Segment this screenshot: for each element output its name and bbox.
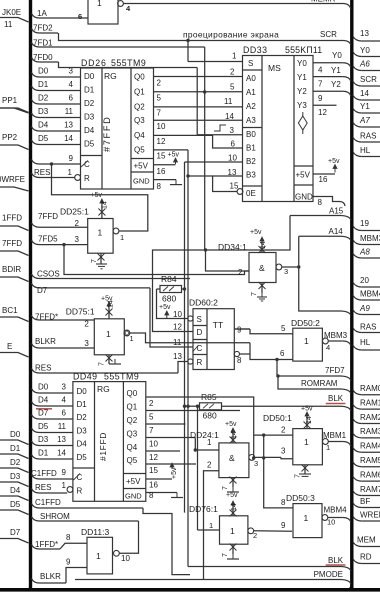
svg-text:RAM6: RAM6 [360, 470, 380, 479]
svg-text:D0: D0 [77, 387, 88, 396]
svg-text:7FFD: 7FFD [2, 239, 22, 248]
svg-text:GND: GND [295, 193, 313, 202]
svg-text:DD26: DD26 [81, 58, 107, 68]
svg-text:A15: A15 [329, 207, 344, 216]
svg-text:16: 16 [157, 167, 166, 176]
svg-text:6: 6 [231, 140, 236, 149]
svg-text:3: 3 [84, 339, 89, 348]
svg-text:R: R [197, 358, 203, 367]
svg-text:WREM: WREM [360, 511, 380, 520]
svg-text:RAM1: RAM1 [360, 398, 380, 407]
svg-text:10: 10 [149, 440, 158, 449]
svg-text:+5v: +5v [91, 192, 103, 199]
svg-text:D3: D3 [38, 107, 49, 116]
svg-text:14: 14 [360, 89, 369, 98]
svg-text:6: 6 [62, 409, 67, 418]
svg-text:11: 11 [4, 20, 13, 29]
svg-text:RES: RES [35, 483, 51, 492]
svg-text:Y1: Y1 [360, 102, 370, 111]
svg-text:10: 10 [157, 122, 166, 131]
svg-text:RES: RES [34, 168, 50, 177]
svg-text:2: 2 [84, 320, 89, 329]
svg-text:1: 1 [232, 52, 237, 61]
svg-text:&: & [229, 453, 235, 463]
svg-text:3: 3 [75, 235, 80, 244]
svg-text:RAM4: RAM4 [360, 442, 380, 451]
svg-text:Q5: Q5 [127, 456, 138, 465]
svg-text:BLKR: BLKR [40, 572, 61, 581]
svg-text:12: 12 [149, 453, 158, 462]
svg-text:RES: RES [35, 364, 51, 373]
svg-text:RAM5: RAM5 [360, 456, 380, 465]
svg-text:A6: A6 [359, 60, 370, 69]
svg-text:D1: D1 [84, 86, 95, 95]
svg-text:Q3: Q3 [127, 430, 138, 439]
svg-text:E: E [7, 342, 12, 351]
svg-text:A3: A3 [246, 116, 256, 125]
svg-text:4: 4 [318, 66, 323, 75]
svg-text:7: 7 [91, 259, 98, 263]
svg-text:D5: D5 [10, 500, 21, 509]
svg-text:10: 10 [173, 310, 182, 319]
svg-text:1FFD: 1FFD [2, 214, 22, 223]
svg-text:555KП11: 555KП11 [285, 45, 322, 55]
svg-text:7FD2: 7FD2 [33, 24, 53, 33]
svg-text:D3: D3 [10, 472, 21, 481]
svg-text:MBM1: MBM1 [323, 431, 347, 440]
svg-text:DD49: DD49 [73, 372, 98, 382]
svg-text:D0: D0 [84, 72, 95, 81]
svg-text:1: 1 [304, 437, 309, 447]
svg-text:Q0: Q0 [134, 72, 145, 81]
svg-text:6: 6 [78, 12, 82, 21]
svg-text:1: 1 [207, 438, 212, 447]
svg-text:1: 1 [230, 526, 235, 536]
svg-text:3: 3 [284, 267, 288, 276]
svg-text:2: 2 [207, 461, 212, 470]
svg-text:7: 7 [222, 553, 229, 557]
svg-text:D5: D5 [77, 453, 88, 462]
svg-text:9: 9 [69, 154, 74, 163]
svg-text:#7FFD: #7FFD [102, 116, 112, 152]
svg-text:+5v: +5v [225, 421, 237, 428]
svg-text:5: 5 [281, 324, 286, 333]
svg-text:12: 12 [173, 323, 182, 332]
svg-text:GND: GND [125, 492, 142, 501]
svg-text:C1FFD: C1FFD [31, 469, 57, 478]
svg-text:13: 13 [173, 352, 182, 361]
svg-text:DD25:1: DD25:1 [60, 207, 89, 217]
svg-text:5: 5 [230, 83, 235, 92]
svg-text:3: 3 [254, 459, 258, 468]
svg-text:8: 8 [149, 491, 154, 500]
svg-text:B1: B1 [246, 144, 256, 153]
svg-text:ROMRAM: ROMRAM [301, 379, 338, 388]
svg-text:+5v: +5v [301, 406, 313, 413]
svg-text:D: D [197, 328, 203, 337]
svg-text:MBM3: MBM3 [324, 331, 348, 340]
svg-text:14: 14 [306, 416, 313, 424]
svg-text:Y1: Y1 [297, 73, 307, 82]
svg-text:6: 6 [69, 94, 74, 103]
svg-text:A14: A14 [329, 227, 344, 236]
svg-text:7: 7 [295, 474, 302, 478]
svg-text:A9: A9 [359, 304, 370, 313]
svg-text:D5: D5 [84, 140, 95, 149]
svg-text:+5v: +5v [250, 229, 262, 236]
svg-text:DD24:1: DD24:1 [190, 430, 219, 440]
svg-text:D4: D4 [77, 440, 88, 449]
svg-text:RG: RG [104, 71, 117, 81]
svg-text:PMODE: PMODE [314, 570, 343, 579]
svg-text:9: 9 [318, 94, 323, 103]
svg-text:14: 14 [225, 112, 234, 121]
svg-text:D7: D7 [10, 528, 21, 537]
svg-text:2: 2 [238, 268, 243, 277]
svg-text:+5V: +5V [134, 162, 149, 171]
svg-text:D4: D4 [38, 121, 49, 130]
svg-text:D4: D4 [84, 126, 95, 135]
svg-text:Y3: Y3 [297, 101, 307, 110]
svg-text:D2: D2 [77, 413, 88, 422]
svg-text:MBM4: MBM4 [324, 506, 348, 515]
svg-text:TT: TT [213, 320, 223, 330]
svg-text:13: 13 [64, 121, 73, 130]
svg-text:SCR: SCR [360, 75, 377, 84]
svg-text:1: 1 [106, 329, 111, 339]
svg-text:D4: D4 [10, 486, 21, 495]
svg-text:CSOS: CSOS [37, 270, 60, 279]
svg-text:D4: D4 [38, 396, 49, 405]
svg-text:MBM4: MBM4 [360, 290, 380, 299]
svg-text:1: 1 [68, 168, 73, 177]
svg-text:+5V: +5V [296, 171, 311, 180]
svg-text:7FD5: 7FD5 [38, 235, 58, 244]
svg-text:R84: R84 [161, 274, 177, 284]
svg-text:D2: D2 [38, 94, 49, 103]
svg-text:проецирование экрана: проецирование экрана [183, 30, 279, 40]
svg-text:1: 1 [209, 521, 213, 530]
svg-text:1A: 1A [37, 9, 47, 18]
svg-text:Q1: Q1 [127, 403, 138, 412]
svg-text:19: 19 [360, 219, 369, 228]
svg-text:B3: B3 [246, 171, 256, 180]
svg-text:D2: D2 [84, 99, 95, 108]
svg-text:D0: D0 [10, 430, 21, 439]
svg-text:Q1: Q1 [134, 88, 145, 97]
svg-text:11: 11 [65, 107, 74, 116]
svg-text:8: 8 [157, 182, 162, 191]
svg-text:16: 16 [319, 175, 328, 184]
svg-text:680: 680 [203, 411, 217, 421]
svg-text:8: 8 [66, 533, 71, 542]
svg-text:+5V: +5V [126, 477, 141, 486]
svg-text:HL: HL [360, 146, 371, 155]
svg-text:+5v: +5v [159, 304, 171, 311]
svg-text:DD33: DD33 [243, 45, 268, 55]
svg-text:Q4: Q4 [127, 443, 138, 452]
svg-text:8: 8 [237, 356, 242, 365]
svg-text:PP1: PP1 [2, 96, 18, 105]
svg-text:RAS: RAS [360, 132, 376, 141]
svg-text:3: 3 [230, 126, 235, 135]
svg-text:1FFD*: 1FFD* [35, 540, 58, 549]
svg-text:DD50:3: DD50:3 [286, 493, 315, 503]
svg-text:SCR: SCR [320, 30, 337, 39]
svg-text:RAM2: RAM2 [360, 413, 380, 422]
svg-text:PP2: PP2 [2, 133, 18, 142]
svg-text:1: 1 [304, 513, 309, 523]
svg-text:B0: B0 [246, 130, 256, 139]
svg-text:+5v: +5v [328, 158, 340, 165]
svg-text:D3: D3 [38, 435, 49, 444]
svg-text:+5v: +5v [226, 492, 238, 499]
svg-text:DD60:2: DD60:2 [189, 298, 218, 308]
svg-text:D0: D0 [38, 67, 49, 76]
svg-text:A8: A8 [359, 248, 370, 257]
svg-text:MBM3: MBM3 [360, 234, 380, 243]
svg-text:3: 3 [281, 447, 286, 456]
svg-text:A2: A2 [246, 102, 256, 111]
svg-text:1: 1 [120, 233, 124, 242]
svg-text:7: 7 [251, 292, 258, 296]
svg-text:DD50:1: DD50:1 [263, 413, 292, 423]
svg-text:RAM3: RAM3 [360, 427, 380, 436]
svg-text:MEM: MEM [357, 536, 376, 545]
svg-text:Q0: Q0 [127, 389, 138, 398]
svg-text:2: 2 [281, 426, 286, 435]
svg-text:1: 1 [130, 334, 134, 343]
svg-text:D1: D1 [38, 80, 49, 89]
svg-text:Q5: Q5 [134, 146, 145, 155]
svg-text:7FD0: 7FD0 [33, 53, 53, 62]
svg-text:1: 1 [97, 0, 102, 8]
svg-text:S: S [248, 59, 253, 68]
svg-text:Q2: Q2 [127, 416, 138, 425]
svg-text:4: 4 [62, 396, 67, 405]
svg-text:JK0E: JK0E [2, 8, 21, 17]
svg-text:S: S [197, 315, 202, 324]
svg-text:12: 12 [157, 137, 166, 146]
svg-text:RAM7: RAM7 [360, 485, 380, 494]
svg-text:7: 7 [157, 109, 162, 118]
svg-text:10: 10 [327, 518, 335, 527]
svg-text:11: 11 [224, 97, 233, 106]
svg-text:7FFD: 7FFD [38, 212, 58, 221]
svg-text:7: 7 [318, 80, 323, 89]
svg-text:1: 1 [304, 336, 309, 346]
svg-text:DD34:1: DD34:1 [218, 242, 247, 252]
svg-text:11: 11 [58, 422, 67, 431]
svg-text:13: 13 [360, 29, 369, 38]
svg-text:7: 7 [222, 486, 229, 490]
svg-text:14: 14 [260, 241, 267, 249]
svg-text:BDIR: BDIR [2, 265, 21, 274]
svg-text:20: 20 [360, 276, 369, 285]
svg-text:RD: RD [360, 553, 372, 562]
svg-text:#1FFD: #1FFD [98, 432, 108, 461]
svg-text:SHROM: SHROM [40, 512, 70, 521]
svg-text:15: 15 [157, 152, 166, 161]
svg-text:555TM9: 555TM9 [111, 58, 146, 68]
svg-text:Y1: Y1 [331, 66, 341, 75]
svg-text:680: 680 [162, 294, 176, 304]
svg-text:8: 8 [281, 498, 286, 507]
svg-text:4: 4 [326, 343, 330, 352]
svg-text:Q3: Q3 [134, 116, 145, 125]
svg-text:9: 9 [237, 326, 242, 335]
svg-text:15: 15 [149, 466, 158, 475]
svg-text:A1: A1 [246, 88, 256, 97]
svg-text:2: 2 [157, 78, 162, 87]
svg-text:BLKR: BLKR [35, 337, 56, 346]
svg-text:5: 5 [149, 413, 154, 422]
svg-text:D5: D5 [38, 422, 49, 431]
svg-text:BF: BF [360, 497, 370, 506]
svg-text:14: 14 [64, 134, 73, 143]
svg-text:14: 14 [231, 503, 238, 511]
svg-text:1: 1 [326, 443, 330, 452]
svg-text:1: 1 [96, 551, 101, 561]
svg-text:10: 10 [121, 554, 130, 563]
svg-text:Y0: Y0 [297, 59, 307, 68]
svg-text:C1FFD: C1FFD [35, 498, 61, 507]
svg-text:C: C [197, 344, 203, 353]
svg-text:DD11:3: DD11:3 [81, 527, 109, 537]
svg-text:7: 7 [99, 362, 106, 366]
svg-text:9: 9 [62, 468, 67, 477]
svg-text:5: 5 [157, 94, 162, 103]
svg-text:DD76:1: DD76:1 [189, 504, 218, 514]
svg-text:D3: D3 [77, 427, 88, 436]
svg-text:R: R [77, 487, 83, 496]
svg-text:Y2: Y2 [297, 87, 307, 96]
svg-text:MS: MS [268, 63, 281, 73]
svg-text:2: 2 [149, 399, 154, 408]
svg-text:2: 2 [230, 68, 235, 77]
svg-text:Y0: Y0 [332, 51, 342, 60]
svg-text:BLK: BLK [328, 556, 344, 565]
svg-text:DD50:2: DD50:2 [291, 318, 320, 328]
svg-text:7: 7 [149, 426, 154, 435]
svg-text:Y2: Y2 [331, 80, 341, 89]
svg-text:A0: A0 [246, 74, 256, 83]
svg-text:Q2: Q2 [134, 103, 145, 112]
svg-text:D7: D7 [38, 409, 49, 418]
svg-text:9: 9 [66, 558, 71, 567]
svg-text:14: 14 [57, 449, 66, 458]
svg-text:12: 12 [318, 108, 327, 117]
svg-text:9: 9 [281, 521, 286, 530]
svg-text:14: 14 [231, 431, 238, 439]
svg-text:Q4: Q4 [134, 131, 145, 140]
svg-text:14: 14 [102, 201, 109, 209]
svg-text:GND: GND [133, 177, 150, 186]
svg-text:16: 16 [149, 481, 158, 490]
svg-text:D3: D3 [84, 113, 95, 122]
svg-text:BC1: BC1 [2, 306, 18, 315]
svg-text:RAS: RAS [360, 323, 376, 332]
svg-text:8: 8 [318, 198, 323, 207]
svg-text:D1: D1 [77, 400, 88, 409]
svg-text:0WRFE: 0WRFE [0, 175, 25, 184]
svg-text:4: 4 [69, 80, 74, 89]
svg-text:D1: D1 [38, 449, 49, 458]
svg-text:D2: D2 [10, 458, 21, 467]
svg-text:2: 2 [253, 531, 257, 540]
svg-text:R: R [84, 174, 90, 183]
svg-text:555TM9: 555TM9 [104, 372, 139, 382]
svg-text:D5: D5 [38, 134, 49, 143]
svg-text:1: 1 [98, 228, 103, 238]
svg-text:MEMR: MEMR [311, 0, 336, 4]
svg-text:B2: B2 [246, 157, 256, 166]
svg-text:D0: D0 [38, 383, 49, 392]
svg-text:3: 3 [62, 383, 67, 392]
svg-text:13: 13 [57, 435, 66, 444]
svg-text:RAM0: RAM0 [360, 384, 380, 393]
svg-text:14: 14 [108, 300, 115, 308]
svg-text:0E: 0E [246, 189, 256, 198]
svg-text:+5v: +5v [171, 467, 178, 479]
svg-text:Y0: Y0 [360, 46, 370, 55]
svg-text:A7: A7 [359, 116, 370, 125]
svg-text:BLK: BLK [328, 394, 344, 403]
svg-text:&: & [259, 263, 265, 273]
svg-text:10: 10 [228, 154, 237, 163]
svg-text:DD75:1: DD75:1 [66, 307, 95, 317]
svg-text:7FD7: 7FD7 [325, 366, 345, 375]
svg-text:D1: D1 [10, 444, 21, 453]
svg-text:1: 1 [62, 481, 67, 490]
svg-text:6: 6 [280, 349, 285, 358]
svg-text:HL: HL [360, 338, 371, 347]
svg-text:RG: RG [97, 384, 110, 394]
svg-text:+5v: +5v [168, 152, 180, 159]
